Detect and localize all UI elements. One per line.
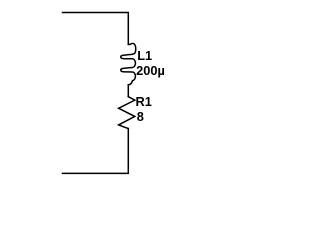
label L1 <box>137 50 152 63</box>
inductor L1 (three D-bumps with crossing loops) <box>121 43 136 84</box>
label R1 <box>136 96 152 109</box>
label 8 <box>137 111 144 124</box>
wire: between inductor and resistor <box>127 85 129 97</box>
wire: bottom vertical and horizontal <box>63 129 129 174</box>
label 200µ <box>136 65 165 78</box>
wire: top horizontal and vertical lead into inductor <box>63 13 129 45</box>
resistor R1 (zigzag) <box>119 97 135 129</box>
